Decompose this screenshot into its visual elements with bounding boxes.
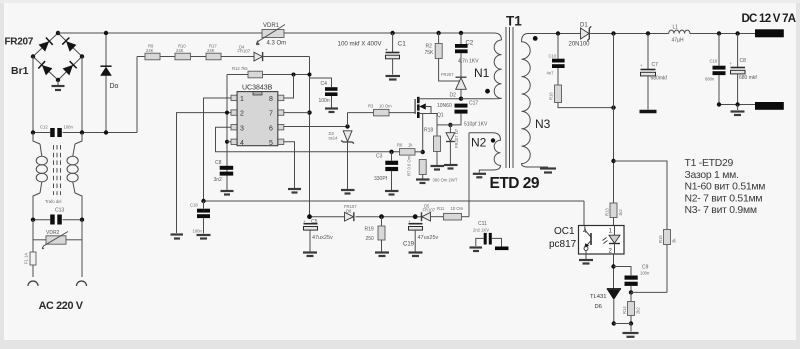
svg-text:7: 7: [269, 111, 273, 118]
svg-text:1: 1: [240, 96, 244, 103]
svg-text:FR107: FR107: [238, 49, 251, 54]
svg-text:680n: 680n: [705, 77, 715, 82]
svg-text:2n2 1KV: 2n2 1KV: [473, 228, 489, 233]
svg-text:R19: R19: [365, 227, 374, 233]
svg-text:FR107: FR107: [423, 208, 436, 213]
svg-text:C5: C5: [311, 219, 318, 225]
svg-text:R13: R13: [605, 208, 610, 216]
svg-text:4.3 Om: 4.3 Om: [267, 41, 287, 47]
svg-text:+: +: [385, 48, 388, 54]
svg-text:47ux25v: 47ux25v: [418, 235, 439, 241]
svg-text:Зазор 1 мм.: Зазор 1 мм.: [685, 170, 739, 181]
svg-text:Br1: Br1: [11, 65, 29, 77]
svg-text:L1: L1: [673, 25, 679, 31]
svg-text:100n: 100n: [64, 125, 74, 130]
svg-text:100n: 100n: [640, 271, 650, 276]
svg-text:T1 -ETD29: T1 -ETD29: [685, 158, 734, 169]
svg-text:C8: C8: [740, 58, 747, 64]
svg-text:D6: D6: [595, 304, 602, 310]
svg-text:F1 1A: F1 1A: [24, 253, 29, 264]
svg-text:2: 2: [240, 111, 244, 118]
svg-text:Trafo del: Trafo del: [45, 199, 61, 204]
svg-text:24K: 24K: [207, 48, 215, 53]
svg-text:R12 7k5: R12 7k5: [232, 66, 248, 71]
svg-text:C1: C1: [398, 41, 407, 48]
svg-text:R11: R11: [437, 206, 445, 211]
svg-text:C17: C17: [469, 101, 478, 107]
svg-text:100 mkf X 400V: 100 mkf X 400V: [338, 40, 383, 47]
svg-text:ETD 29: ETD 29: [490, 175, 540, 192]
svg-text:N3- 7 вит 0.9мм: N3- 7 вит 0.9мм: [685, 205, 757, 216]
svg-text:R7 0.6 Om: R7 0.6 Om: [407, 155, 412, 176]
svg-text:C2: C2: [466, 41, 474, 47]
svg-text:24K: 24K: [176, 48, 184, 53]
svg-text:1k2: 1k2: [618, 209, 623, 216]
svg-text:pc817: pc817: [549, 239, 577, 250]
svg-text:510pf 1KV: 510pf 1KV: [464, 122, 488, 128]
svg-text:2k2: 2k2: [636, 307, 641, 314]
svg-text:24K: 24K: [146, 48, 154, 53]
svg-text:10 Om: 10 Om: [379, 104, 392, 109]
svg-text:5: 5: [269, 140, 273, 147]
svg-text:8: 8: [269, 96, 273, 103]
svg-text:6: 6: [269, 125, 273, 132]
svg-text:UC3843B: UC3843B: [242, 85, 273, 92]
svg-text:C12: C12: [40, 125, 48, 130]
svg-text:680mkf: 680mkf: [651, 76, 668, 82]
svg-text:VDR1: VDR1: [263, 23, 280, 29]
svg-text:FR207: FR207: [5, 37, 34, 48]
svg-text:680 mkf: 680 mkf: [739, 75, 757, 81]
svg-text:C3: C3: [376, 154, 383, 160]
svg-text:20N100: 20N100: [569, 42, 591, 48]
svg-text:R14: R14: [622, 306, 627, 314]
svg-text:C16: C16: [710, 59, 718, 64]
svg-text:C8: C8: [215, 160, 222, 166]
svg-text:N1-60 вит 0.51мм: N1-60 вит 0.51мм: [685, 182, 766, 193]
svg-text:C7: C7: [652, 62, 659, 68]
svg-text:100n: 100n: [193, 229, 203, 234]
svg-text:100n: 100n: [319, 98, 330, 104]
svg-text:4: 4: [240, 140, 244, 147]
svg-text:3: 3: [240, 125, 244, 132]
svg-text:N3: N3: [535, 117, 551, 131]
svg-text:N1: N1: [474, 66, 490, 80]
svg-text:C10: C10: [549, 54, 557, 59]
svg-text:Do: Do: [110, 83, 119, 90]
svg-text:R6: R6: [397, 143, 403, 148]
svg-text:VDR2: VDR2: [46, 230, 60, 236]
svg-text:47ux25v: 47ux25v: [312, 235, 333, 241]
svg-text:330Pf: 330Pf: [374, 176, 388, 182]
svg-text:C13: C13: [55, 208, 64, 214]
svg-text:R3: R3: [368, 104, 374, 109]
svg-text:R2: R2: [426, 44, 433, 50]
svg-text:C4: C4: [321, 81, 328, 87]
svg-text:R15: R15: [658, 235, 663, 243]
svg-text:250: 250: [366, 236, 375, 242]
svg-text:360 Om 2WT: 360 Om 2WT: [433, 178, 458, 183]
svg-text:10 Om: 10 Om: [451, 206, 464, 211]
svg-text:D8: D8: [346, 208, 352, 213]
svg-text:C11: C11: [478, 221, 487, 227]
svg-text:3n2: 3n2: [214, 177, 223, 183]
svg-text:ss14: ss14: [329, 136, 339, 141]
svg-text:N2: N2: [471, 136, 487, 150]
svg-text:AC 220 V: AC 220 V: [39, 300, 84, 312]
svg-text:N2- 7 вит 0.51мм: N2- 7 вит 0.51мм: [685, 193, 763, 204]
svg-text:R16: R16: [549, 92, 554, 100]
svg-text:47µH: 47µH: [672, 38, 684, 44]
svg-text:DC 12 V 7A: DC 12 V 7A: [742, 13, 796, 25]
svg-text:TL431: TL431: [590, 294, 606, 300]
svg-text:Q1: Q1: [437, 113, 444, 119]
svg-text:10N60: 10N60: [437, 103, 452, 109]
svg-text:OC1: OC1: [554, 226, 575, 237]
svg-text:FR207 D7: FR207 D7: [454, 128, 459, 148]
svg-text:D1: D1: [580, 23, 588, 29]
svg-text:75K: 75K: [425, 50, 435, 56]
svg-text:FR207: FR207: [441, 72, 454, 77]
svg-text:C19: C19: [403, 242, 415, 248]
svg-text:R18: R18: [424, 128, 433, 134]
svg-text:D2: D2: [450, 93, 457, 99]
svg-text:C18: C18: [190, 203, 198, 208]
svg-text:T1: T1: [506, 14, 522, 29]
svg-text:4n7: 4n7: [547, 71, 555, 76]
